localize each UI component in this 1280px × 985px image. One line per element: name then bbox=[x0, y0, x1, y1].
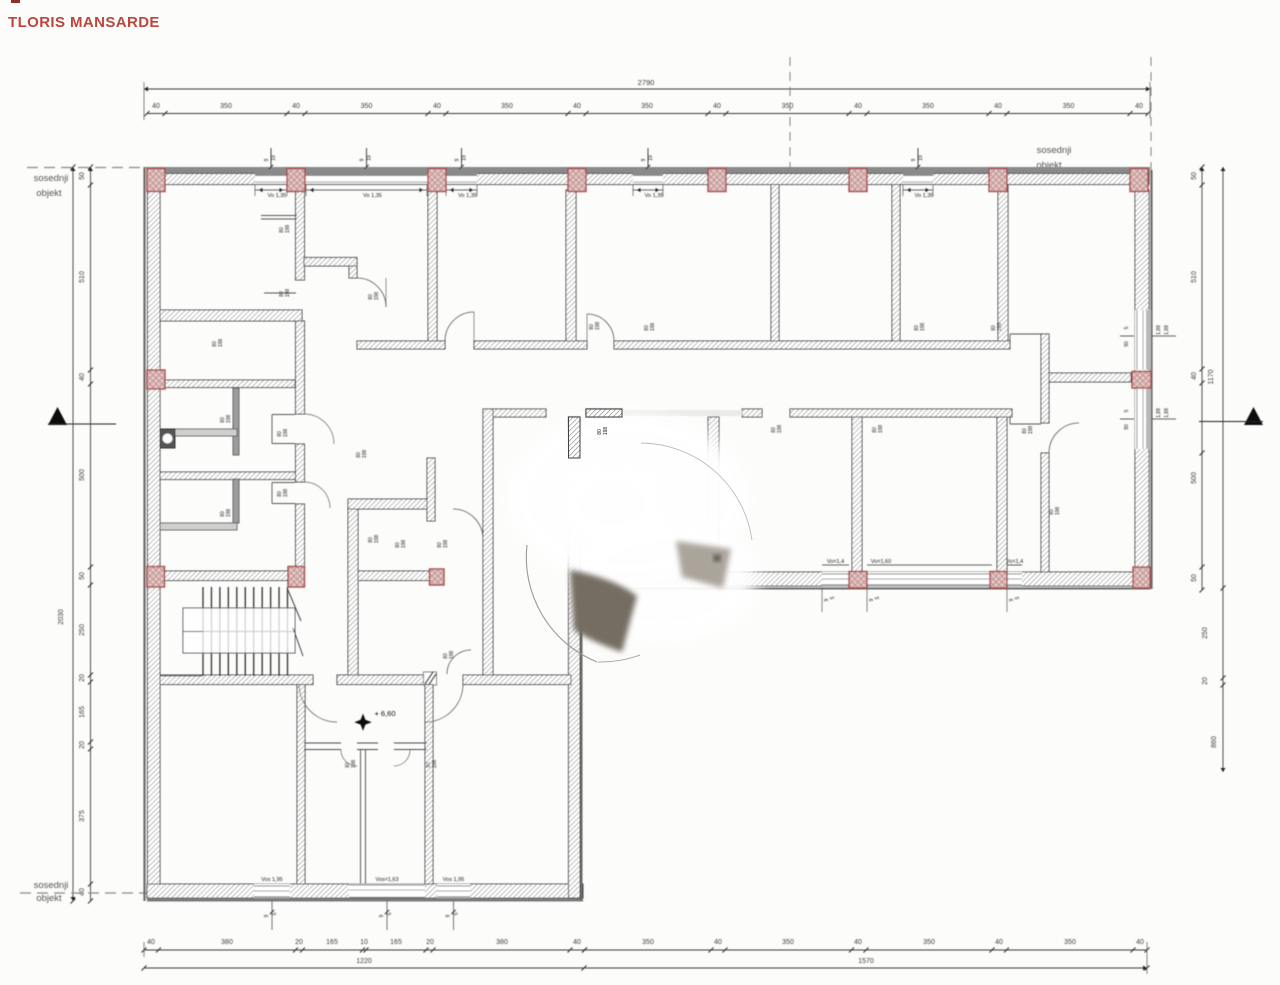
svg-text:+ 6,60: + 6,60 bbox=[374, 709, 395, 718]
svg-text:9: 9 bbox=[911, 158, 917, 161]
svg-text:500: 500 bbox=[1191, 472, 1198, 484]
svg-text:objekt: objekt bbox=[36, 188, 62, 199]
svg-text:510: 510 bbox=[1191, 271, 1198, 283]
svg-text:sosednji: sosednji bbox=[1037, 145, 1072, 156]
svg-text:9: 9 bbox=[264, 914, 270, 917]
svg-text:90: 90 bbox=[1124, 424, 1130, 430]
svg-text:1,88: 1,88 bbox=[1156, 408, 1162, 418]
svg-text:198: 198 bbox=[374, 535, 380, 544]
svg-text:40: 40 bbox=[854, 103, 862, 110]
svg-text:198: 198 bbox=[226, 509, 232, 518]
svg-text:860: 860 bbox=[1211, 736, 1218, 748]
svg-text:1220: 1220 bbox=[356, 958, 372, 965]
svg-text:380: 380 bbox=[221, 939, 233, 946]
svg-text:350: 350 bbox=[1063, 103, 1075, 110]
svg-text:2790: 2790 bbox=[638, 78, 655, 87]
svg-text:165: 165 bbox=[326, 939, 338, 946]
svg-text:198: 198 bbox=[920, 323, 926, 332]
svg-text:198: 198 bbox=[603, 427, 609, 436]
svg-text:50: 50 bbox=[79, 572, 86, 580]
svg-text:20: 20 bbox=[426, 939, 434, 946]
svg-text:350: 350 bbox=[782, 103, 794, 110]
svg-text:Vo 1,35: Vo 1,35 bbox=[268, 193, 287, 199]
svg-text:Vo=1,4: Vo=1,4 bbox=[1006, 559, 1023, 565]
svg-text:198: 198 bbox=[595, 322, 601, 331]
svg-text:40: 40 bbox=[713, 103, 721, 110]
svg-text:5: 5 bbox=[272, 912, 278, 915]
svg-text:165: 165 bbox=[79, 706, 86, 718]
svg-text:350: 350 bbox=[501, 103, 513, 110]
svg-text:9: 9 bbox=[360, 158, 366, 161]
svg-text:198: 198 bbox=[997, 323, 1003, 332]
svg-text:510: 510 bbox=[79, 271, 86, 283]
svg-text:350: 350 bbox=[922, 103, 934, 110]
svg-text:Vo 1,35: Vo 1,35 bbox=[458, 193, 477, 199]
svg-text:1570: 1570 bbox=[858, 958, 874, 965]
svg-text:198: 198 bbox=[1028, 426, 1034, 435]
svg-text:198: 198 bbox=[777, 425, 783, 434]
svg-text:Vos=1,63: Vos=1,63 bbox=[375, 877, 398, 883]
svg-text:198: 198 bbox=[443, 540, 449, 549]
svg-text:5: 5 bbox=[1124, 326, 1130, 329]
svg-text:165: 165 bbox=[390, 939, 402, 946]
svg-text:5: 5 bbox=[875, 596, 881, 599]
svg-text:20: 20 bbox=[79, 674, 86, 682]
svg-text:198: 198 bbox=[285, 289, 291, 298]
svg-text:1,88: 1,88 bbox=[1164, 325, 1170, 335]
svg-text:198: 198 bbox=[351, 760, 357, 769]
svg-text:40: 40 bbox=[1191, 372, 1198, 380]
svg-text:350: 350 bbox=[361, 103, 373, 110]
svg-text:198: 198 bbox=[283, 429, 289, 438]
svg-text:350: 350 bbox=[641, 103, 653, 110]
svg-text:5: 5 bbox=[387, 912, 393, 915]
svg-text:198: 198 bbox=[432, 760, 438, 769]
svg-text:9: 9 bbox=[379, 914, 385, 917]
svg-text:9: 9 bbox=[641, 158, 647, 161]
svg-text:Vo=1,60: Vo=1,60 bbox=[871, 559, 891, 565]
svg-text:40: 40 bbox=[994, 103, 1002, 110]
svg-text:Vos 1,95: Vos 1,95 bbox=[443, 877, 464, 883]
svg-text:Vo 1,35: Vo 1,35 bbox=[363, 193, 382, 199]
svg-text:5: 5 bbox=[1015, 596, 1021, 599]
svg-text:Vo 1,35: Vo 1,35 bbox=[645, 193, 664, 199]
svg-text:5: 5 bbox=[830, 596, 836, 599]
svg-text:19: 19 bbox=[271, 155, 277, 161]
svg-text:350: 350 bbox=[220, 103, 232, 110]
svg-text:40: 40 bbox=[79, 373, 86, 381]
svg-text:40: 40 bbox=[79, 888, 86, 896]
svg-text:sosednji: sosednji bbox=[34, 173, 69, 184]
svg-text:Vos 1,95: Vos 1,95 bbox=[261, 877, 282, 883]
svg-text:19: 19 bbox=[918, 155, 924, 161]
svg-text:350: 350 bbox=[642, 939, 654, 946]
svg-text:350: 350 bbox=[923, 939, 935, 946]
svg-text:40: 40 bbox=[573, 103, 581, 110]
svg-text:20: 20 bbox=[1202, 677, 1209, 685]
svg-text:10: 10 bbox=[360, 939, 368, 946]
svg-text:objekt: objekt bbox=[36, 893, 62, 904]
svg-text:40: 40 bbox=[995, 939, 1003, 946]
svg-text:TLORIS MANSARDE: TLORIS MANSARDE bbox=[8, 14, 160, 31]
svg-text:40: 40 bbox=[152, 103, 160, 110]
svg-text:40: 40 bbox=[292, 103, 300, 110]
svg-text:40: 40 bbox=[147, 939, 155, 946]
svg-text:sosednji: sosednji bbox=[34, 880, 69, 891]
svg-text:Vo=1,4: Vo=1,4 bbox=[827, 559, 844, 565]
svg-text:375: 375 bbox=[79, 810, 86, 822]
svg-text:19: 19 bbox=[367, 155, 373, 161]
svg-text:198: 198 bbox=[374, 292, 380, 301]
svg-text:198: 198 bbox=[226, 415, 232, 424]
svg-text:50: 50 bbox=[1191, 574, 1198, 582]
svg-text:2030: 2030 bbox=[58, 609, 65, 625]
svg-text:5: 5 bbox=[1124, 409, 1130, 412]
svg-text:198: 198 bbox=[283, 489, 289, 498]
svg-text:19: 19 bbox=[648, 155, 654, 161]
svg-text:Vo 1,35: Vo 1,35 bbox=[915, 193, 934, 199]
svg-text:40: 40 bbox=[1136, 939, 1144, 946]
svg-text:5: 5 bbox=[454, 912, 460, 915]
svg-text:500: 500 bbox=[79, 469, 86, 481]
svg-text:198: 198 bbox=[878, 425, 884, 434]
svg-text:198: 198 bbox=[1055, 507, 1061, 516]
svg-text:40: 40 bbox=[573, 939, 581, 946]
svg-text:9: 9 bbox=[264, 158, 270, 161]
svg-text:350: 350 bbox=[1064, 939, 1076, 946]
svg-text:40: 40 bbox=[714, 939, 722, 946]
svg-text:198: 198 bbox=[218, 339, 224, 348]
svg-text:20: 20 bbox=[79, 741, 86, 749]
svg-text:50: 50 bbox=[79, 172, 86, 180]
svg-text:1170: 1170 bbox=[1208, 369, 1215, 384]
svg-text:1,88: 1,88 bbox=[1164, 408, 1170, 418]
svg-text:90: 90 bbox=[1124, 341, 1130, 347]
svg-text:198: 198 bbox=[285, 225, 291, 234]
svg-text:40: 40 bbox=[433, 103, 441, 110]
svg-text:20: 20 bbox=[295, 939, 303, 946]
svg-text:9: 9 bbox=[455, 158, 461, 161]
svg-text:198: 198 bbox=[362, 450, 368, 459]
svg-text:198: 198 bbox=[650, 323, 656, 332]
svg-text:40: 40 bbox=[854, 939, 862, 946]
svg-text:198: 198 bbox=[449, 651, 455, 660]
svg-text:250: 250 bbox=[1202, 627, 1209, 639]
svg-text:19: 19 bbox=[462, 155, 468, 161]
svg-text:9: 9 bbox=[446, 914, 452, 917]
svg-text:40: 40 bbox=[1135, 103, 1143, 110]
svg-text:1,88: 1,88 bbox=[1156, 325, 1162, 335]
svg-text:50: 50 bbox=[1191, 172, 1198, 180]
svg-text:198: 198 bbox=[401, 540, 407, 549]
svg-text:250: 250 bbox=[79, 624, 86, 636]
svg-text:380: 380 bbox=[496, 939, 508, 946]
svg-text:350: 350 bbox=[782, 939, 794, 946]
